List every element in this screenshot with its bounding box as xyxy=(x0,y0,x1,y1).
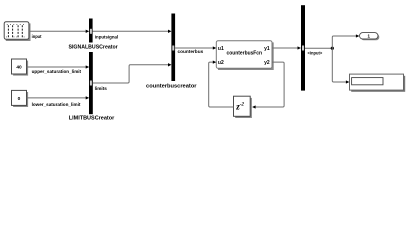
delay block z^-2 xyxy=(234,96,252,118)
svg-text:limits: limits xyxy=(95,86,108,91)
svg-text:0: 0 xyxy=(18,96,21,102)
wire selector -> junction (<input>) xyxy=(305,47,332,49)
svg-text:40: 40 xyxy=(16,65,22,71)
bus creator SIGNALBUSCreator xyxy=(89,19,93,43)
bus creator LIMITBUSCreator xyxy=(89,52,93,114)
wire 40 -> LIMITBUSCreator xyxy=(27,66,87,68)
wire z^-2 -> u2 (feedback) xyxy=(209,62,234,107)
output port notch xyxy=(90,81,92,86)
bus creator counterbuscreator xyxy=(171,14,175,82)
svg-text:SIGNALBUSCreator: SIGNALBUSCreator xyxy=(69,44,118,50)
MATLAB function block counterbusFcn xyxy=(216,41,273,70)
svg-text:counterbus: counterbus xyxy=(178,49,204,54)
source block "input" (signal editor) xyxy=(4,22,30,41)
wire SIGNALBUSCreator -> counterbuscreator xyxy=(93,30,169,32)
svg-text:u2: u2 xyxy=(218,60,224,66)
svg-text:lower_saturation_limit: lower_saturation_limit xyxy=(32,102,81,107)
constant block 0 xyxy=(12,90,29,107)
wire LIMITBUSCreator -> counterbuscreator (limits) xyxy=(93,65,169,83)
svg-text:<input>: <input> xyxy=(308,51,323,56)
wire counterbuscreator -> u1 (counterbus) xyxy=(175,47,213,49)
svg-text:counterbuscreator: counterbuscreator xyxy=(146,84,197,90)
output port notch xyxy=(302,46,304,51)
wire y2 -> z^-2 (feedback) xyxy=(255,62,284,107)
wire junction -> outport 1 xyxy=(332,36,356,48)
svg-text:input: input xyxy=(32,34,42,39)
display block xyxy=(350,74,406,92)
output port notch xyxy=(172,46,174,51)
wire y1 -> bus selector xyxy=(272,47,298,49)
wire input -> SIGNALBUSCreator xyxy=(29,30,86,32)
wire junction -> display xyxy=(332,48,346,82)
junction node xyxy=(331,47,334,50)
svg-text:y2: y2 xyxy=(264,60,270,66)
svg-text:LIMITBUSCreator: LIMITBUSCreator xyxy=(69,115,115,121)
constant block 40 xyxy=(12,59,29,76)
outport 1 xyxy=(360,33,380,41)
bus selector xyxy=(301,5,305,90)
output port notch xyxy=(90,29,92,34)
wire 0 -> LIMITBUSCreator xyxy=(27,97,87,99)
arrowhead into SIGNALBUSCreator xyxy=(86,30,90,33)
svg-text:upper_saturation_limit: upper_saturation_limit xyxy=(32,69,82,74)
svg-text:u1: u1 xyxy=(218,46,224,52)
svg-text:inputsignal: inputsignal xyxy=(95,34,118,39)
svg-text:y1: y1 xyxy=(264,46,270,52)
svg-text:counterbusFcn: counterbusFcn xyxy=(227,50,263,56)
